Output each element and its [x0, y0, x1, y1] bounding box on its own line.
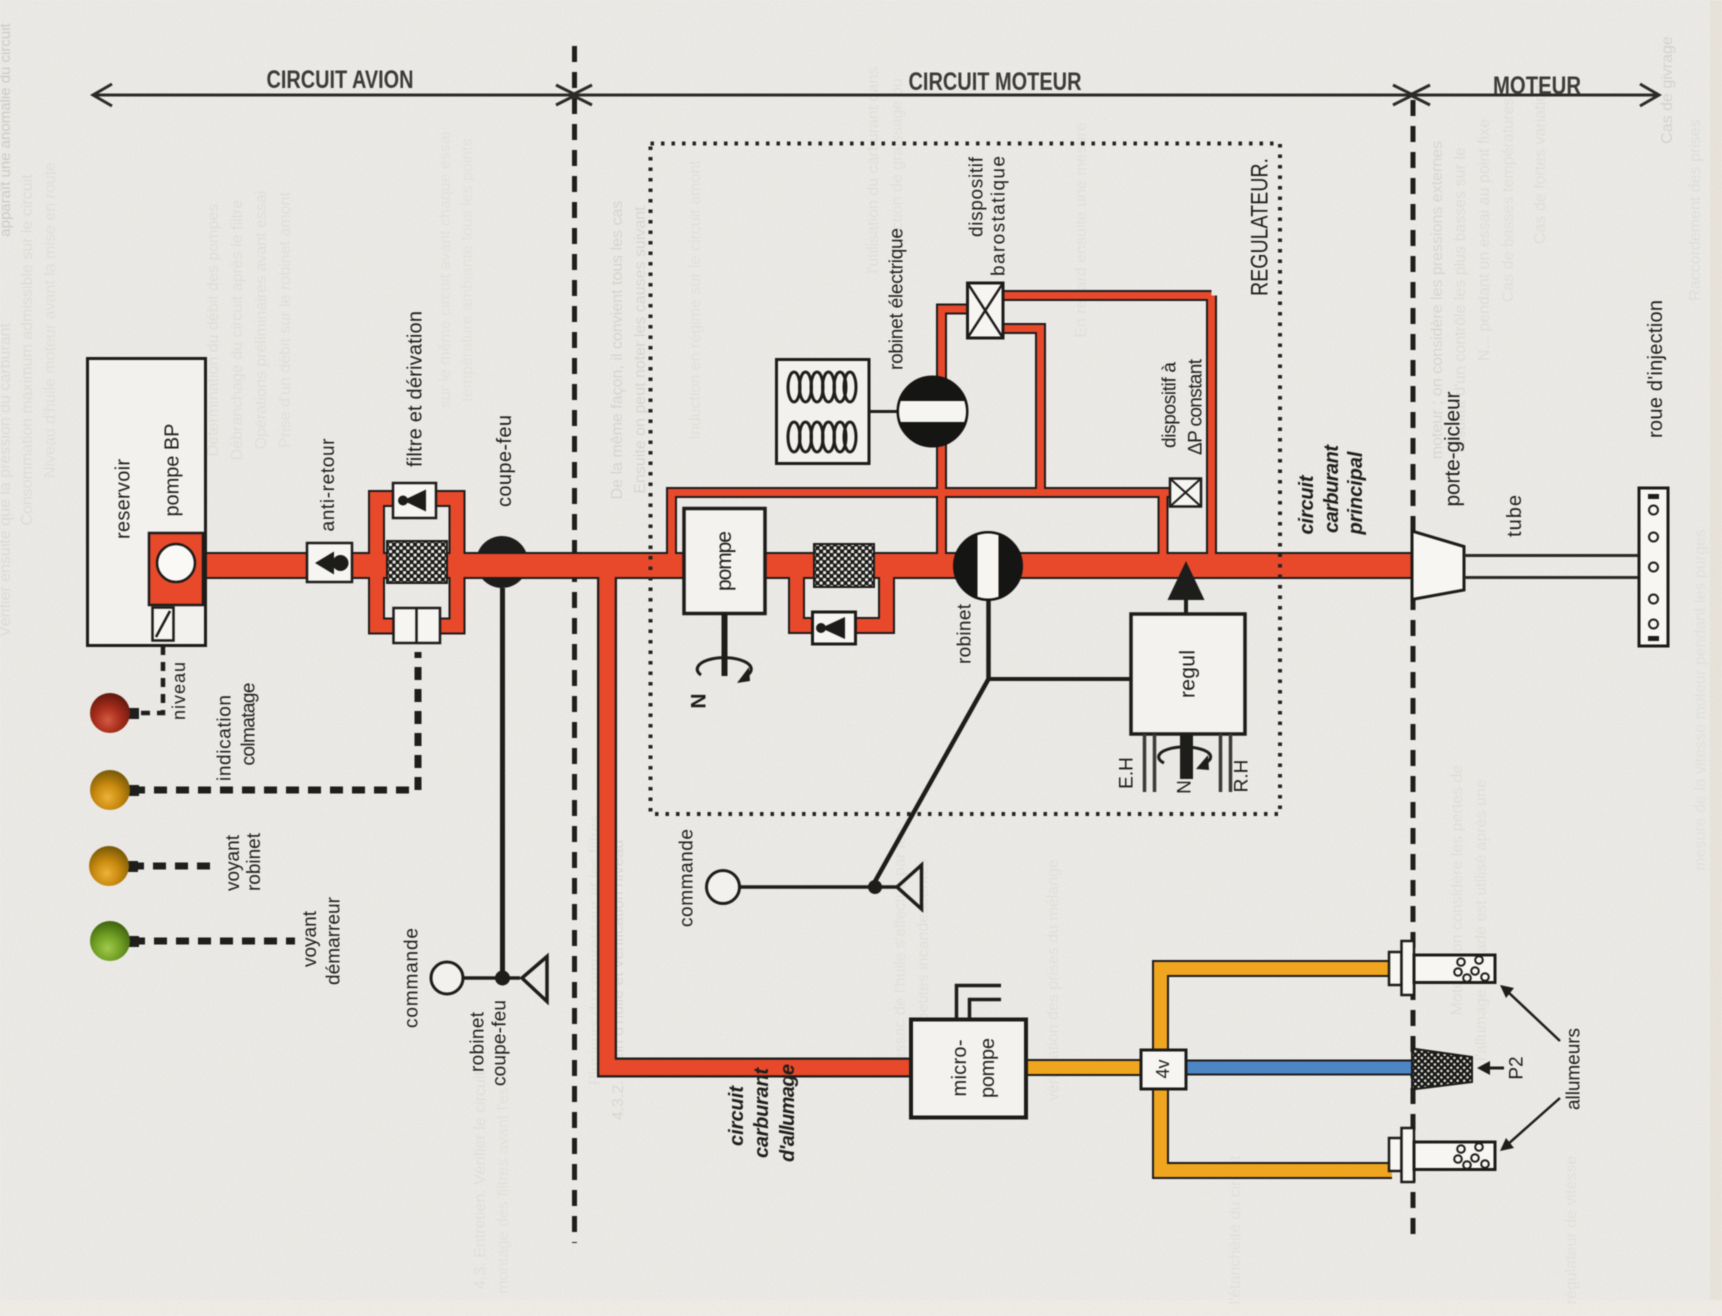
svg-text:robinet: robinet — [244, 832, 265, 891]
svg-text:CIRCUIT MOTEUR: CIRCUIT MOTEUR — [909, 68, 1082, 96]
svg-text:En regard ensuite une mesure: En regard ensuite une mesure — [1073, 122, 1090, 337]
svg-text:filtre et dérivation: filtre et dérivation — [405, 311, 427, 467]
commande circle (coupe-feu) — [431, 962, 463, 994]
lamp red (niveau) — [128, 708, 139, 719]
svg-text:mesure de la vitesse moteur pe: mesure de la vitesse moteur pendant les … — [1692, 529, 1709, 871]
svg-text:MOTEUR: MOTEUR — [1493, 72, 1581, 100]
allumeur top — [1389, 941, 1495, 995]
wire mid pipe network red — [668, 296, 1212, 561]
4v box — [1141, 1050, 1186, 1089]
wire moteur bypass loop red — [797, 567, 887, 626]
svg-text:tube: tube — [1504, 495, 1526, 537]
wire dashed voyant demarreur — [132, 938, 295, 945]
svg-text:coupe-feu: coupe-feu — [490, 1000, 511, 1086]
wire blue pipe outline — [1184, 1060, 1414, 1076]
svg-text:REGULATEUR.: REGULATEUR. — [1247, 158, 1274, 296]
svg-text:température ambiante tous les: température ambiante tous les points — [459, 138, 476, 401]
wire moteur bypass loop outline — [797, 567, 887, 626]
svg-text:démarreur: démarreur — [324, 896, 345, 985]
dispositif a dP constant (X box) — [1170, 479, 1201, 507]
robinet control lines — [986, 600, 991, 679]
svg-text:commande: commande — [402, 928, 423, 1028]
svg-text:robinet: robinet — [955, 603, 976, 664]
micro-pompe box — [911, 1020, 1026, 1118]
svg-text:Raccordement des prises: Raccordement des prises — [1687, 119, 1704, 300]
svg-text:Détermination du débit des pom: Détermination du débit des pompes — [205, 204, 222, 457]
micro-pompe electrical bracket — [957, 986, 1002, 1020]
boundary dashed line moteur — [1411, 100, 1416, 1243]
svg-text:régulateur de vitesse: régulateur de vitesse — [1563, 1156, 1580, 1305]
robinet (circle over pipe) — [954, 530, 1022, 602]
svg-text:N: N — [688, 693, 711, 708]
commande circle (robinet) — [707, 871, 740, 904]
svg-text:ΔP constant: ΔP constant — [1186, 358, 1207, 455]
svg-text:Induction en régime sur le cir: Induction en régime sur le circuit amont — [687, 160, 704, 440]
wire main line outline — [202, 552, 1413, 579]
clapet derivation (top branch check valve) — [393, 483, 436, 518]
coupe-feu control line — [500, 588, 505, 978]
svg-text:roue d'injection: roue d'injection — [1645, 300, 1667, 438]
pompe BP red square — [149, 533, 203, 605]
svg-text:4.3. Entretien. Vérifier le ci: 4.3. Entretien. Vérifier le circuit — [472, 1071, 489, 1289]
svg-text:Opérations préliminaires avant: Opérations préliminaires avant essai — [253, 191, 270, 450]
svg-text:Niveau d'huile moteur avant la: Niveau d'huile moteur avant la mise en r… — [42, 162, 59, 478]
wire filtre-derivation loop outline — [377, 499, 458, 627]
svg-text:Cas de basses températures: Cas de basses températures — [1500, 98, 1517, 303]
boundary dashed line avion/moteur — [572, 46, 577, 1243]
svg-text:micro-: micro- — [949, 1040, 971, 1097]
svg-text:robinet: robinet — [468, 1011, 489, 1072]
wire allumage branch red — [607, 563, 913, 1068]
svg-text:Prise d'un débit sur le robine: Prise d'un débit sur le robinet amont — [277, 192, 294, 448]
wire dashed voyant robinet — [131, 863, 217, 870]
svg-text:N: N — [1175, 780, 1196, 794]
niveau dashed link — [131, 646, 163, 713]
roue d'injection — [1639, 488, 1668, 646]
svg-text:principal: principal — [1345, 451, 1367, 535]
svg-text:reservoir: reservoir — [113, 459, 135, 539]
regul box — [1131, 614, 1245, 734]
svg-text:indication: indication — [215, 695, 236, 781]
svg-text:pompe: pompe — [977, 1038, 999, 1098]
svg-text:E.H: E.H — [1117, 757, 1138, 789]
wire orange loop colour — [1024, 969, 1392, 1171]
P2 cone — [1412, 1049, 1472, 1090]
svg-text:Débranchage du circuit après l: Débranchage du circuit après le filtre — [229, 200, 246, 461]
header: CIRCUIT AVION arrow — [93, 84, 1659, 106]
svg-text:dispositif: dispositif — [967, 156, 988, 237]
svg-text:l'allumage dégradé est utilisé: l'allumage dégradé est utilisé après une — [1473, 779, 1490, 1061]
svg-text:P2: P2 — [1507, 1056, 1528, 1079]
allumeurs pointer arrows — [1507, 991, 1560, 1041]
regul arrow into main line — [1184, 599, 1188, 614]
svg-text:l'utilisation du carburant dan: l'utilisation du carburant dans — [865, 67, 882, 274]
double box (bottom branch) — [394, 608, 441, 643]
node junction coupe-feu — [495, 971, 510, 986]
bobine (spiral) box — [777, 360, 898, 464]
coupe-feu (black circle under main pipe) — [476, 536, 528, 588]
lamp green (voyant demarreur) — [128, 936, 139, 947]
REGULATEUR dotted box — [651, 144, 1281, 815]
wire blue pipe colour — [1184, 1062, 1414, 1074]
svg-text:N... pendant un essai au point: N... pendant un essai au point fixe — [1476, 119, 1493, 361]
italic circuit labels — [726, 444, 1367, 1162]
regul connections E.H / N / R.H — [1145, 734, 1231, 792]
svg-text:voyant: voyant — [300, 910, 321, 967]
svg-text:anti-retour: anti-retour — [318, 438, 339, 532]
svg-text:circuit: circuit — [726, 1085, 748, 1146]
svg-text:circuit: circuit — [1296, 474, 1318, 534]
wire allumage branch outline — [607, 563, 913, 1068]
filtre (hatched) — [387, 541, 447, 583]
svg-text:R.H: R.H — [1232, 760, 1253, 793]
tube — [1464, 556, 1639, 578]
wire mid pipe network outline — [666, 296, 1212, 563]
svg-text:Cas de givrage: Cas de givrage — [1659, 36, 1676, 144]
dispositif barostatique (X box) — [968, 283, 1004, 338]
robinet electrique (circle over pipe) — [895, 377, 970, 447]
anti-retour valve — [307, 543, 352, 582]
porte-gicleur — [1412, 531, 1464, 600]
wire main line red — [203, 554, 1413, 577]
pompe box (circuit moteur) — [684, 509, 765, 614]
svg-text:coupe-feu: coupe-feu — [494, 415, 516, 507]
lamp amber (indication colmatage) — [128, 785, 139, 796]
wire orange loop outline — [1024, 969, 1392, 1171]
svg-text:Vérifier ensuite que la pressi: Vérifier ensuite que la pression du carb… — [0, 322, 14, 637]
svg-text:sur le même circuit avant chaq: sur le même circuit avant chaque essai — [437, 132, 454, 409]
svg-text:4v: 4v — [1153, 1059, 1173, 1078]
clapet bypass moteur — [813, 612, 856, 644]
svg-text:carburant: carburant — [1321, 444, 1343, 533]
node junction robinet commande — [868, 880, 882, 894]
lamp amber (voyant robinet) — [127, 861, 138, 872]
pompe shaft N — [722, 614, 728, 676]
svg-text:carburant: carburant — [751, 1067, 773, 1158]
robinet coupe-feu valve triangle — [522, 957, 547, 1002]
svg-text:De la même façon, il convient: De la même façon, il convient tous les c… — [609, 201, 626, 500]
svg-text:porte-gicleur: porte-gicleur — [1442, 392, 1465, 507]
allumeur bottom — [1389, 1128, 1495, 1182]
wire dashed colmatage — [132, 652, 418, 790]
svg-text:Consommation maximum admissibl: Consommation maximum admissible sur le c… — [19, 174, 36, 526]
svg-text:voyant: voyant — [223, 834, 244, 891]
svg-text:allumeurs: allumeurs — [1564, 1028, 1585, 1110]
svg-text:commande: commande — [677, 829, 698, 927]
svg-text:apparaît une anomalie du circu: apparaît une anomalie du circuit — [0, 22, 14, 236]
wire filtre-derivation loop red — [377, 499, 458, 627]
svg-text:colmatage: colmatage — [239, 683, 260, 766]
svg-text:CIRCUIT AVION: CIRCUIT AVION — [267, 66, 414, 94]
svg-text:Cas de fortes variations: Cas de fortes variations — [1532, 76, 1549, 244]
niveau sensor — [153, 608, 174, 641]
reservoir box — [88, 359, 206, 646]
pompe BP circle — [157, 544, 195, 582]
filtre moteur (hatched) — [814, 544, 874, 587]
robinet valve triangle — [897, 865, 922, 909]
svg-text:montage des filtres avant l'es: montage des filtres avant l'essai — [495, 1066, 512, 1293]
svg-text:Pessac de l'huile s'effectue p: Pessac de l'huile s'effectue par les — [892, 828, 909, 1072]
svg-text:dispositif à: dispositif à — [1160, 362, 1181, 448]
svg-text:Ensuite on peut noter les caus: Ensuite on peut noter les causes suivant — [632, 206, 649, 494]
svg-text:niveau: niveau — [169, 662, 189, 720]
svg-text:d'allumage: d'allumage — [777, 1064, 799, 1162]
P2 arrow — [1484, 1067, 1504, 1070]
svg-text:pompe BP: pompe BP — [162, 424, 184, 517]
svg-text:robinet électrique: robinet électrique — [887, 228, 908, 370]
svg-text:pompe: pompe — [713, 531, 736, 591]
svg-text:regul: regul — [1177, 650, 1200, 698]
